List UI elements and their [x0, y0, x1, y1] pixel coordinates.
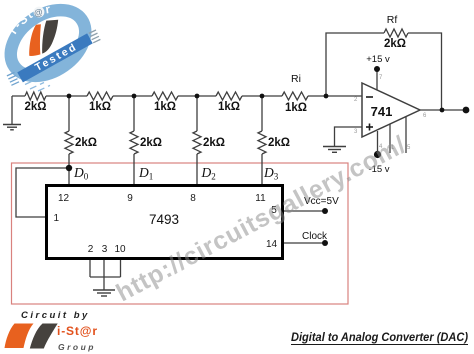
svg-text:1kΩ: 1kΩ	[89, 101, 111, 113]
svg-text:9: 9	[127, 193, 133, 204]
svg-text:2: 2	[88, 244, 94, 255]
svg-text:12: 12	[58, 193, 70, 204]
svg-text:Clock: Clock	[302, 231, 328, 242]
svg-text:1kΩ: 1kΩ	[154, 101, 176, 113]
svg-text:8: 8	[190, 193, 196, 204]
svg-text:Ri: Ri	[291, 73, 301, 85]
svg-text:1: 1	[54, 213, 60, 224]
svg-text:Digital to Analog Converter (D: Digital to Analog Converter (DAC)	[291, 332, 468, 344]
svg-text:Group: Group	[58, 342, 96, 352]
svg-text:3: 3	[102, 244, 108, 255]
svg-text:7493: 7493	[149, 212, 179, 227]
svg-text:+15 v: +15 v	[366, 54, 390, 65]
svg-text:i-St@r: i-St@r	[57, 324, 97, 338]
svg-text:1kΩ: 1kΩ	[285, 102, 307, 114]
svg-text:14: 14	[266, 239, 278, 250]
svg-text:Rf: Rf	[387, 14, 398, 26]
svg-text:2kΩ: 2kΩ	[75, 137, 97, 149]
svg-text:2kΩ: 2kΩ	[384, 38, 406, 50]
svg-text:2kΩ: 2kΩ	[268, 137, 290, 149]
svg-text:1kΩ: 1kΩ	[218, 101, 240, 113]
svg-text:2kΩ: 2kΩ	[140, 137, 162, 149]
svg-text:Circuit by: Circuit by	[21, 310, 90, 321]
svg-text:10: 10	[114, 244, 126, 255]
svg-text:2kΩ: 2kΩ	[203, 137, 225, 149]
svg-text:2kΩ: 2kΩ	[24, 101, 46, 113]
svg-text:741: 741	[371, 104, 393, 119]
